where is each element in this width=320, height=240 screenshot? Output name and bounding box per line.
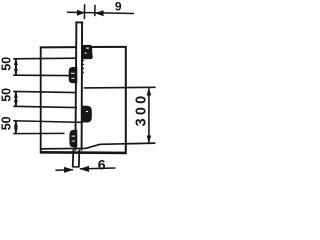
arrow of 50-dim D2 down: [14, 100, 18, 106]
50-dim extension line L2: [13, 74, 69, 76]
svg-text:6: 6: [98, 156, 106, 172]
arrow of 50-dim D1 down: [14, 69, 18, 75]
50-dim extension line L4: [13, 106, 77, 107]
50-dim line D3: [15, 121, 17, 134]
arrow of 50-dim D3 up: [14, 121, 18, 127]
6-dim line left segment: [55, 169, 73, 172]
9-dim extension tick 1: [83, 4, 85, 19]
plate outline: top edge right segment: [82, 46, 127, 48]
50-dim line D1: [15, 59, 17, 75]
50-dim extension line L5: [13, 121, 82, 123]
50-dim extension line L3: [13, 91, 76, 92]
50-dim extension line L1: [13, 57, 76, 60]
arrow of 300-dim down: [147, 136, 152, 144]
svg-text:50: 50: [0, 88, 14, 102]
arrow of 9-dim pointing left: [95, 10, 104, 16]
vertical rib: lower stub left edge: [72, 150, 75, 168]
vertical rib: top cap: [75, 21, 83, 23]
arrow of 9-dim pointing right: [77, 10, 85, 16]
svg-text:50: 50: [0, 57, 14, 71]
svg-text:300: 300: [134, 93, 150, 127]
weld bead W2 (left side): [69, 67, 78, 83]
weld bead W4 (left side, bottom): [69, 130, 77, 148]
bottom inner line / 300 bottom extension line: [40, 143, 155, 149]
9-dim line: [67, 12, 134, 13]
arrow of 50-dim D2 up: [14, 92, 18, 98]
arrow of 300-dim up: [147, 88, 152, 96]
weld bead W3 (right side, middle): [82, 106, 92, 123]
vertical rib: lower stub right edge: [78, 150, 81, 168]
rib hatch ticks below weld W1: [82, 61, 84, 73]
vertical rib: left edge: [75, 22, 76, 151]
50-dim extension line L6: [13, 132, 64, 134]
50-dim line D2: [15, 92, 17, 107]
vertical rib: bottom cap: [73, 166, 80, 168]
weld bead W1 (right side, top): [82, 45, 93, 59]
weld bead speckles: [71, 48, 89, 142]
6-dim line right segment: [80, 167, 116, 170]
9-dim extension tick 2: [94, 5, 96, 16]
arrow of 6-dim pointing right: [64, 167, 74, 173]
arrow of 50-dim D3 down: [14, 127, 18, 133]
plate outline: top edge left segment: [40, 46, 76, 48]
arrow of 6-dim pointing left: [79, 166, 89, 172]
arrow of 50-dim D1 up: [14, 59, 18, 65]
300-dim line: [148, 88, 150, 143]
svg-text:9: 9: [115, 0, 122, 14]
svg-text:50: 50: [0, 116, 14, 130]
vertical rib: right edge: [81, 22, 84, 151]
plate outline: bottom edge: [40, 151, 127, 154]
plate outline: right edge: [125, 46, 127, 153]
300-dim top extension line: [84, 86, 156, 89]
plate outline: left edge: [40, 47, 42, 154]
